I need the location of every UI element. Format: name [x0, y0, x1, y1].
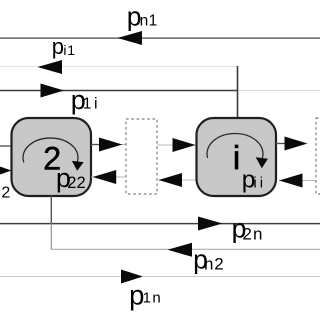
svg-text:n1: n1: [140, 13, 158, 30]
arrowhead p_1n (points right): [121, 270, 143, 284]
arrowhead self-loop state i (points down): [256, 157, 268, 168]
arrowhead p_n2 (points left): [168, 243, 193, 257]
arrowhead p_12 into state 2 (points right, cut by edge): [0, 163, 11, 178]
svg-text:1n: 1n: [143, 290, 163, 307]
svg-text:i: i: [233, 139, 240, 176]
wire stub into state 2 left (from state 1): [0, 145, 12, 147]
wire vertical from p_i1 rail to state i: [237, 66, 239, 119]
svg-text:p: p: [52, 34, 64, 59]
wire rail p_2n: [0, 223, 320, 225]
svg-text:n2: n2: [204, 255, 225, 274]
arrowhead p_i1 (points left): [38, 60, 63, 74]
dashed placeholder box D1: [126, 119, 157, 194]
wire rail p_1i continuation (light segment): [238, 90, 320, 92]
arrowhead right dashed->state i (points left): [279, 174, 303, 188]
arrowhead p_2n (points right): [198, 217, 223, 231]
arrowhead state i->right dashed (points right): [285, 137, 308, 151]
wire vertical state 2 bottom lower part: [50, 224, 52, 250]
svg-text:2n: 2n: [242, 224, 263, 243]
arrowhead dashed->state2 (points left): [93, 170, 117, 184]
wire state i to right dashed box top: [276, 143, 286, 145]
svg-text:i1: i1: [63, 42, 76, 58]
svg-text:22: 22: [67, 174, 85, 192]
arrowhead p_1i (points right): [41, 84, 65, 98]
wire state i to dashed box bottom: [159, 179, 198, 181]
wire rail p_n2 (from corner to right): [51, 248, 320, 250]
wire rail p_1i (dark segment): [0, 90, 238, 92]
arrowhead dashed->state i (points right): [173, 138, 196, 152]
arrowhead p_n1 (points left): [118, 31, 143, 45]
wire right dashed to state i bottom: [279, 180, 316, 182]
dashed placeholder box D2 (right edge): [316, 118, 320, 194]
self-loop arc state i: [207, 134, 263, 158]
wire rail p_n1: [0, 37, 320, 39]
wire vertical from state 2 bottom: [50, 196, 52, 224]
self-loop arc state 2: [23, 138, 78, 162]
wire rail p_i1 (light): [0, 66, 238, 68]
arrowhead state i->dashed (points left): [159, 173, 183, 187]
state box 2: [12, 118, 92, 196]
svg-text:ii: ii: [253, 175, 266, 192]
arrowhead state2->dashed (points right): [99, 138, 122, 152]
svg-text:2: 2: [1, 185, 10, 202]
wire rail p_1n (light): [0, 276, 320, 278]
wire state2 to dashed box top: [91, 144, 126, 146]
wire dashed box to state2 bottom: [91, 176, 126, 178]
wire dashed box to state i top: [157, 144, 196, 146]
arrowhead self-loop state 2 (points down): [72, 161, 84, 171]
state box i: [197, 118, 277, 196]
svg-text:1i: 1i: [83, 96, 100, 113]
